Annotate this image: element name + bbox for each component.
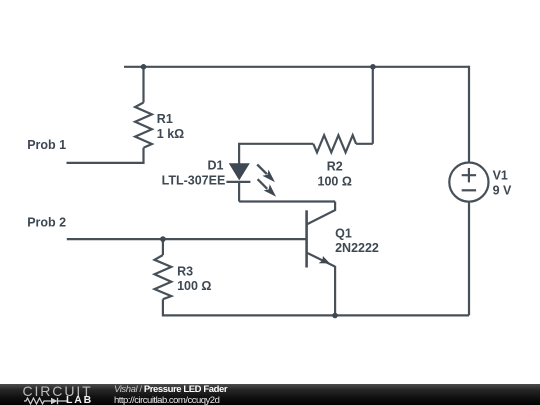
label R3 designator <box>177 265 193 279</box>
label Q1 value <box>335 241 379 255</box>
footer bar <box>0 384 540 405</box>
resistor R1 <box>135 103 152 148</box>
svg-text:1 kΩ: 1 kΩ <box>157 127 184 141</box>
wire R1 bottom lead to Prob 1 <box>67 148 144 163</box>
transistor Q1 2N2222 <box>306 202 335 268</box>
voltage source V1 <box>449 163 488 202</box>
CircuitLab logo wordmark LAB <box>66 396 93 405</box>
junction dot R2 branch / top rail <box>370 64 376 70</box>
svg-text:R1: R1 <box>157 112 173 126</box>
label Prob 2 <box>27 215 66 229</box>
label R3 value <box>177 279 211 293</box>
footer url line <box>114 396 219 405</box>
wire R3 top lead <box>162 239 164 255</box>
wire V1 top lead <box>468 66 470 163</box>
footer title line <box>114 385 227 395</box>
wire bottom rail <box>162 314 469 316</box>
svg-text:V1: V1 <box>493 169 508 183</box>
junction dot R1 / top rail <box>141 64 147 70</box>
junction dot Q1 emitter / bottom rail <box>332 313 338 319</box>
label R2 designator <box>327 159 343 173</box>
svg-text:100 Ω: 100 Ω <box>177 279 211 293</box>
svg-text:LTL-307EE: LTL-307EE <box>162 174 226 188</box>
resistor R3 <box>155 255 172 299</box>
label Q1 designator <box>335 226 352 240</box>
wire D1 cathode lead <box>238 181 240 201</box>
CircuitLab logo resistor+diode glyph <box>24 397 68 405</box>
wire R3 bottom lead <box>162 299 164 315</box>
svg-text:Q1: Q1 <box>335 226 352 240</box>
wire base rail Prob 2 <box>67 238 307 240</box>
resistor R2 <box>313 135 356 152</box>
wire top rail <box>124 66 469 68</box>
wire R1 top lead <box>142 67 144 103</box>
label D1 value <box>162 174 226 188</box>
wire R2 right lead <box>356 143 373 145</box>
label R1 value <box>157 127 184 141</box>
wire V1 bottom lead <box>468 201 470 315</box>
junction dot R3 / base rail <box>160 236 166 242</box>
label R1 designator <box>157 112 173 126</box>
svg-text:R2: R2 <box>327 159 343 173</box>
D1 LED emission arrow 1 <box>257 165 275 183</box>
wire R2 branch from top rail <box>372 67 374 144</box>
label Prob 1 <box>27 138 66 152</box>
wire D1 anode riser <box>238 143 240 164</box>
D1 LED emission arrow 2 <box>258 179 277 197</box>
svg-text:D1: D1 <box>208 158 224 172</box>
label V1 designator <box>493 169 508 183</box>
wire Q1 emitter to bottom rail <box>334 266 336 315</box>
label V1 value <box>493 184 512 198</box>
CircuitLab logo wordmark CIRCUIT <box>23 386 93 397</box>
wire D1 cathode to Q1 collector <box>239 200 335 202</box>
label R2 value <box>318 175 352 189</box>
diode D1 LED body <box>226 163 250 182</box>
svg-text:Prob 1: Prob 1 <box>27 138 66 152</box>
svg-text:100 Ω: 100 Ω <box>318 175 352 189</box>
svg-text:R3: R3 <box>177 265 193 279</box>
label D1 designator <box>208 158 224 172</box>
svg-text:Prob 2: Prob 2 <box>27 215 66 229</box>
wire R2 left lead to D1 anode <box>239 143 313 145</box>
svg-text:2N2222: 2N2222 <box>335 241 379 255</box>
svg-text:9 V: 9 V <box>493 184 512 198</box>
